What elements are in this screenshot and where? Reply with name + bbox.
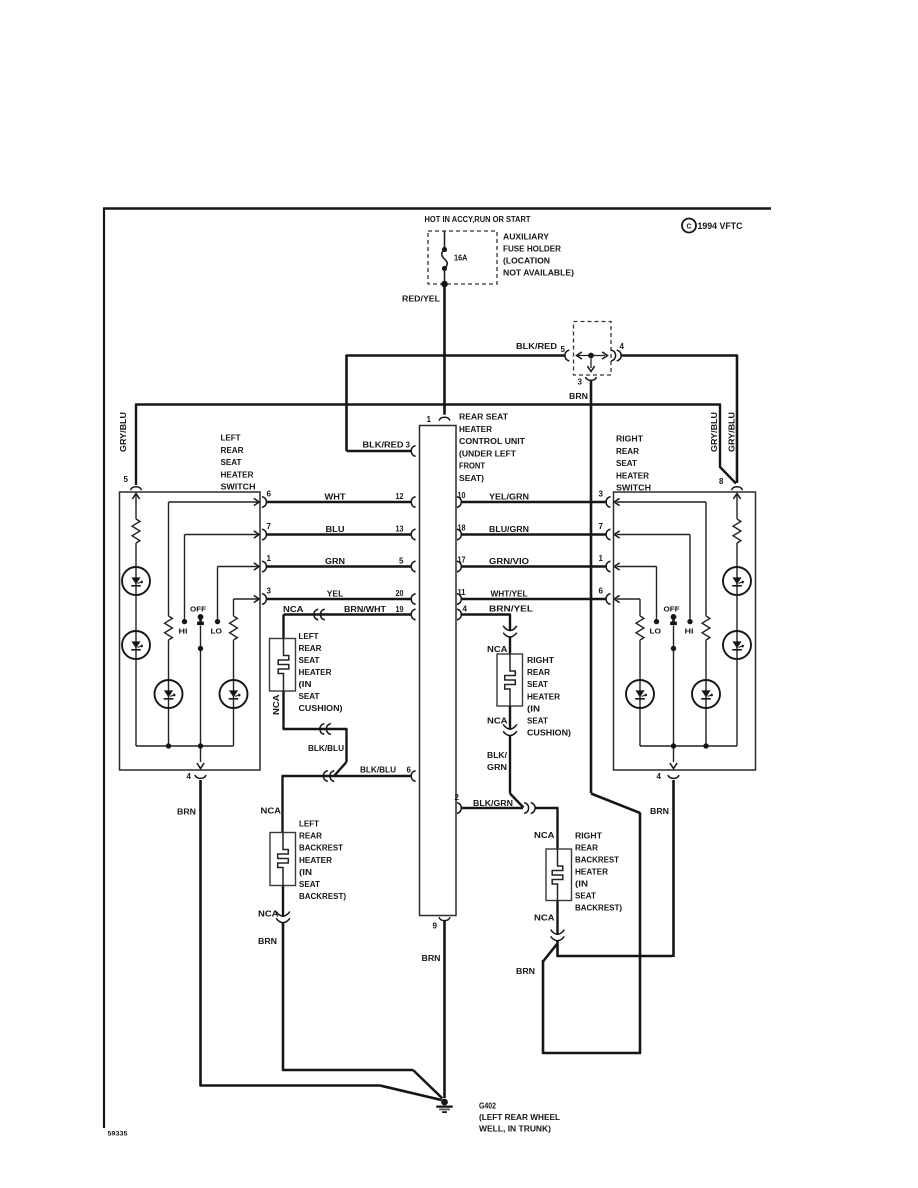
S2 OFF wiper contact <box>670 614 677 625</box>
S1 HI contact wire <box>184 535 186 619</box>
S1 pin 3 connector <box>262 594 266 605</box>
label LO (S2) <box>650 627 662 636</box>
svg-text:GRN: GRN <box>487 763 507 772</box>
sheet number 59335 <box>108 1131 128 1138</box>
svg-text:BRN/YEL: BRN/YEL <box>489 605 533 614</box>
wire GRN/VIO control unit pin 17 to S2 pin 1 <box>461 565 606 567</box>
svg-text:3: 3 <box>599 490 604 499</box>
LED indicator S1 upper <box>122 567 150 595</box>
LED indicator S2 LO <box>626 680 654 708</box>
svg-text:16A: 16A <box>454 254 468 263</box>
label BRN (left backrest) <box>258 937 277 946</box>
svg-text:BRN: BRN <box>177 808 196 817</box>
svg-text:(LEFT REAR WHEEL: (LEFT REAR WHEEL <box>479 1113 560 1122</box>
label RED/YEL <box>402 295 440 304</box>
svg-text:BACKREST: BACKREST <box>299 844 343 853</box>
label BLK/RED (pin3) <box>363 441 411 450</box>
control unit pin 5 label <box>399 557 404 566</box>
svg-text:NCA: NCA <box>534 831 555 840</box>
control unit pin 1 connector <box>439 417 450 420</box>
svg-text:REAR: REAR <box>575 844 598 853</box>
resistor S2 HI branch <box>702 616 710 640</box>
S2 HI contact wire <box>689 535 691 619</box>
svg-text:4: 4 <box>187 772 192 781</box>
S1 pin 6 internal arrow <box>254 498 259 505</box>
wire GRN S1 pin 1 to control unit pin 5 <box>267 565 411 567</box>
wire BRN left backrest heater to ground <box>283 923 443 1099</box>
label BRN (left switch pin 4) <box>177 808 196 817</box>
pin 4 label right switch <box>657 772 662 781</box>
svg-text:GRN/VIO: GRN/VIO <box>489 557 529 566</box>
label RIGHT REAR BACKREST HEATER (IN SEAT BACKREST) <box>575 832 622 913</box>
S1 pin 7 label <box>267 522 272 531</box>
label G402 (LEFT REAR WHEEL WELL, IN TRUNK) <box>479 1102 560 1134</box>
wire BLK/GRN junction to right backrest heater <box>535 808 558 849</box>
svg-text:4: 4 <box>463 605 468 614</box>
svg-text:SEAT: SEAT <box>299 692 320 701</box>
control unit pin 9 label <box>433 922 438 931</box>
svg-text:REAR: REAR <box>616 447 639 456</box>
label BRN (right switch pin 4) <box>650 807 669 816</box>
svg-text:WELL, IN TRUNK): WELL, IN TRUNK) <box>479 1125 551 1134</box>
svg-text:LEFT: LEFT <box>299 632 319 641</box>
label BRN (right lower) <box>516 967 535 976</box>
pin 4 connector right switch <box>668 775 679 778</box>
heating element left cushion <box>278 639 289 692</box>
svg-text:BRN/WHT: BRN/WHT <box>344 605 386 614</box>
node rail junction B <box>198 743 203 748</box>
wire BLK/RED control unit pin 3 up and right to connector pin 5 <box>347 356 565 452</box>
node S2 HI contact <box>687 619 692 624</box>
control unit pin 10 connector <box>457 497 461 508</box>
wire YEL/GRN control unit pin 10 to S2 pin 3 <box>461 501 606 503</box>
wire BRN right backrest junction to right switch pin 4 <box>558 941 673 956</box>
svg-text:BRN: BRN <box>258 937 277 946</box>
label RIGHT REAR SEAT HEATER SWITCH <box>616 435 651 493</box>
node S2 wiper junction <box>671 646 676 651</box>
svg-text:NCA: NCA <box>283 605 304 614</box>
svg-text:REAR: REAR <box>527 668 550 677</box>
fuse holder dashed box <box>428 231 497 284</box>
svg-text:NOT AVAILABLE): NOT AVAILABLE) <box>503 269 574 278</box>
fuse F 16A <box>442 231 448 283</box>
right rear seat heater (cushion) box <box>497 654 523 706</box>
node S2 rail junction A <box>671 743 676 748</box>
label YEL/GRN <box>489 493 529 502</box>
wire BLK/BLU left cushion heater to junction <box>284 691 347 776</box>
svg-text:BRN: BRN <box>516 967 535 976</box>
control unit pin 2 label <box>455 793 460 802</box>
svg-text:BLU/GRN: BLU/GRN <box>489 525 529 534</box>
wire BRN/WHT heater to control unit pin 19 <box>284 613 412 615</box>
svg-text:BLK/RED: BLK/RED <box>363 441 404 450</box>
svg-text:BRN: BRN <box>422 954 441 963</box>
svg-text:13: 13 <box>396 525 404 534</box>
LED indicator S2 upper <box>723 567 751 595</box>
label BRN (top) <box>569 392 588 401</box>
svg-text:NCA: NCA <box>487 645 508 654</box>
svg-text:1: 1 <box>599 554 604 563</box>
svg-text:BACKREST): BACKREST) <box>575 904 622 913</box>
S1 bottom rail <box>136 745 234 747</box>
label BRN (pin 9) <box>422 954 441 963</box>
control unit pin 10 label <box>458 491 466 500</box>
svg-text:5: 5 <box>399 557 404 566</box>
svg-text:WHT: WHT <box>325 493 346 502</box>
svg-text:8: 8 <box>719 477 724 486</box>
S1 pin 6 label <box>267 490 272 499</box>
S2 LO contact wire <box>656 567 658 619</box>
wire WHT S1 pin 6 to control unit pin 12 <box>267 501 411 503</box>
svg-text:BLK/BLU: BLK/BLU <box>360 766 396 775</box>
svg-text:OFF: OFF <box>664 605 680 614</box>
svg-text:NCA: NCA <box>258 910 279 919</box>
S1 pin 1 label <box>267 554 272 563</box>
svg-text:2: 2 <box>455 793 460 802</box>
wire BRN control unit pin 9 to ground <box>443 921 446 1098</box>
svg-text:3: 3 <box>406 441 411 450</box>
svg-text:YEL: YEL <box>327 590 344 599</box>
svg-text:FRONT: FRONT <box>459 462 485 471</box>
svg-text:4: 4 <box>657 772 662 781</box>
S1 pin 6 connector <box>262 497 266 508</box>
svg-text:12: 12 <box>396 492 404 501</box>
resistor S1 illumination <box>132 519 140 543</box>
label NCA (below left cushion heater, rotated) <box>272 694 281 715</box>
svg-text:19: 19 <box>396 605 404 614</box>
right rear backrest heater box <box>546 849 572 901</box>
LED indicator S2 lower <box>723 631 751 659</box>
node wiper junction <box>198 646 203 651</box>
wire left backrest heater to connector <box>282 886 284 917</box>
control unit pin 13 connector <box>411 529 415 540</box>
wire BLK/GRN right cushion heater down <box>509 706 511 729</box>
S1 pin 5 internal arrow <box>132 494 139 499</box>
svg-text:RIGHT: RIGHT <box>575 832 602 841</box>
svg-text:6: 6 <box>599 587 604 596</box>
in-line connector (left backrest BRN) <box>276 912 290 923</box>
control unit pin 6 label <box>407 766 412 775</box>
S2 pin 3 internal arrow <box>614 498 619 505</box>
label LEFT REAR BACKREST HEATER (IN SEAT BACKREST) <box>299 820 346 902</box>
S1 pin 7 internal arrow <box>254 531 259 538</box>
svg-text:1994 VFTC: 1994 VFTC <box>698 221 743 231</box>
rear seat heater control unit U1 box <box>420 426 457 916</box>
connector internal wire with arrows <box>577 352 608 359</box>
S2 pin 7 label <box>599 522 604 531</box>
svg-text:REAR SEAT: REAR SEAT <box>459 413 508 422</box>
svg-text:BLK/: BLK/ <box>487 751 508 760</box>
svg-text:OFF: OFF <box>190 605 206 614</box>
S2 pin 7 internal wire <box>617 534 691 536</box>
pin 5 connector <box>565 350 569 361</box>
label NCA (pin19 row) <box>283 605 304 614</box>
label NCA (below left backrest heater) <box>258 910 279 919</box>
in-line connector (right backrest BRN) <box>551 930 565 941</box>
pin 5 connector left switch <box>131 487 142 490</box>
S1 OFF wiper contact <box>197 614 204 625</box>
label HI <box>179 627 188 636</box>
label OFF <box>190 605 206 614</box>
svg-text:(UNDER LEFT: (UNDER LEFT <box>459 449 516 458</box>
S1 pin 6 internal wire <box>169 501 260 503</box>
label LEFT REAR SEAT HEATER (IN SEAT CUSHION) <box>299 632 343 713</box>
in-line connector (right cushion lower) <box>503 724 517 735</box>
svg-text:BLK/GRN: BLK/GRN <box>473 799 513 808</box>
svg-text:HEATER: HEATER <box>616 471 649 480</box>
wire right backrest heater to connector <box>556 901 558 935</box>
S2 bottom rail <box>640 745 737 747</box>
S2 pin 3 label <box>599 490 604 499</box>
svg-text:GRN: GRN <box>325 557 345 566</box>
S1 HI feed branch <box>168 502 170 746</box>
control unit pin 20 connector <box>411 594 415 605</box>
svg-text:CONTROL UNIT: CONTROL UNIT <box>459 437 525 446</box>
wire RED/YEL fuse to control unit pin 1 <box>443 284 446 415</box>
svg-text:HEATER: HEATER <box>299 856 332 865</box>
wire BLU S1 pin 7 to control unit pin 13 <box>267 533 411 535</box>
wire BLK/RED horizontal into pin 3 <box>347 450 412 453</box>
LED indicator S1 LO <box>220 680 248 708</box>
svg-text:BRN: BRN <box>569 392 588 401</box>
left rear seat heater (cushion) box <box>270 639 296 692</box>
control unit pin 12 label <box>396 492 404 501</box>
wire BRN right switch pin 4 down <box>672 780 675 957</box>
S1 pin 1 internal arrow <box>254 563 259 570</box>
svg-text:11: 11 <box>458 588 467 597</box>
svg-text:NCA: NCA <box>272 694 281 715</box>
svg-text:GRY/BLU: GRY/BLU <box>119 412 128 452</box>
left rear backrest heater box <box>270 833 296 886</box>
label BLU <box>326 525 345 534</box>
S1 pin 7 connector <box>262 529 266 540</box>
svg-text:BACKREST): BACKREST) <box>299 892 346 901</box>
S1 pin 3 label <box>267 587 272 596</box>
control unit pin 20 label <box>396 589 404 598</box>
S2 wiper common wire <box>673 626 675 763</box>
label NCA (below right backrest heater) <box>534 914 555 923</box>
connector dashed box (top right) <box>574 322 612 376</box>
frame top border <box>103 207 771 210</box>
label BLK/BLU (upper) <box>308 744 344 753</box>
svg-text:BACKREST: BACKREST <box>575 856 619 865</box>
S2 pin 1 internal arrow <box>614 563 619 570</box>
label WHT <box>325 493 346 502</box>
S2 pin 1 connector <box>606 561 610 572</box>
label GRY/BLU (left, rotated) <box>119 412 128 452</box>
in-line connector (BRN/YEL) <box>503 626 517 637</box>
control unit pin 18 label <box>458 524 466 533</box>
wire YEL S1 pin 3 to control unit pin 20 <box>267 598 411 600</box>
wire BRN right loop to top connector <box>543 794 640 1054</box>
in-line connector (BLK/GRN junction) <box>524 803 535 814</box>
wire BLK/RED connector pin 4 to right GRY/BLU drop <box>621 356 738 484</box>
label GRN/VIO <box>489 557 529 566</box>
svg-text:G402: G402 <box>479 1102 496 1111</box>
svg-text:7: 7 <box>599 522 604 531</box>
label YEL <box>327 590 344 599</box>
S2 pin 3 internal wire <box>617 501 707 503</box>
pin 4 connector left switch <box>195 775 206 778</box>
wire WHT/YEL control unit pin 11 to S2 pin 6 <box>461 598 606 600</box>
svg-text:LO: LO <box>211 627 223 636</box>
label HI (S2) <box>685 627 694 636</box>
pin 8 connector right switch <box>732 487 743 490</box>
svg-text:FUSE HOLDER: FUSE HOLDER <box>503 245 561 254</box>
wire BLK/GRN to junction <box>510 736 524 808</box>
S2 pin 4 internal arrow <box>670 763 677 768</box>
svg-text:REAR: REAR <box>299 832 322 841</box>
svg-text:SEAT: SEAT <box>299 880 320 889</box>
label RIGHT REAR SEAT HEATER (IN SEAT CUSHION) <box>527 656 571 738</box>
label HOT IN ACCY,RUN OR START <box>425 215 531 224</box>
S1 pin 3 internal wire <box>234 598 260 600</box>
svg-text:6: 6 <box>407 766 412 775</box>
S1 pin 1 connector <box>262 561 266 572</box>
S1 pin 1 internal wire <box>218 566 260 568</box>
wire BRN/YEL pin 4 to right cushion heater <box>461 615 510 631</box>
S2 pin 6 label <box>599 587 604 596</box>
svg-text:HEATER: HEATER <box>527 692 560 701</box>
svg-text:SWITCH: SWITCH <box>616 484 651 493</box>
control unit pin 3 connector <box>411 446 415 457</box>
svg-text:HEATER: HEATER <box>459 425 492 434</box>
control unit pin 12 connector <box>411 497 415 508</box>
pin 5 label <box>561 345 566 354</box>
label BRN/WHT <box>344 605 386 614</box>
control unit pin 4 connector <box>457 609 461 620</box>
in-line connector (BLK/BLU row) <box>323 771 334 782</box>
in-line connector (BLK/BLU upper) <box>320 724 331 735</box>
svg-text:(IN: (IN <box>299 868 312 877</box>
S1 LO resistor branch <box>233 599 235 746</box>
S2 pin 6 connector <box>606 594 610 605</box>
S1 pin 3 internal arrow <box>254 595 259 602</box>
label WHT/YEL <box>491 590 528 599</box>
wire BRN left switch pin 4 to ground <box>201 780 442 1100</box>
svg-text:HOT IN ACCY,RUN OR START: HOT IN ACCY,RUN OR START <box>425 215 531 224</box>
svg-text:SWITCH: SWITCH <box>221 483 256 492</box>
svg-text:LEFT: LEFT <box>299 820 319 829</box>
S2 pin 7 connector <box>606 529 610 540</box>
wire BLK/BLU row to control unit pin 6 <box>283 776 412 833</box>
svg-text:BRN: BRN <box>650 807 669 816</box>
label BLK/ GRN (two line) <box>487 751 508 772</box>
S2 pin 1 label <box>599 554 604 563</box>
svg-text:SEAT: SEAT <box>221 458 242 467</box>
svg-text:1: 1 <box>427 415 432 424</box>
svg-text:3: 3 <box>578 378 583 387</box>
resistor S1 LO branch <box>230 616 238 640</box>
control unit pin 2 connector <box>457 803 461 814</box>
svg-text:SEAT): SEAT) <box>459 474 484 483</box>
label OFF (S2) <box>664 605 680 614</box>
wire BLK/GRN control unit pin 2 <box>461 807 523 809</box>
control unit pin 18 connector <box>457 529 461 540</box>
svg-text:YEL/GRN: YEL/GRN <box>489 493 529 502</box>
S2 pin 8 internal arrow <box>733 494 740 499</box>
resistor S2 illumination <box>733 519 741 543</box>
svg-text:BLK/BLU: BLK/BLU <box>308 744 344 753</box>
svg-text:4: 4 <box>620 342 625 351</box>
label NCA (above right cushion heater) <box>487 645 508 654</box>
pin 3 label <box>578 378 583 387</box>
resistor S1 HI branch <box>165 616 173 640</box>
svg-text:9: 9 <box>433 922 438 931</box>
pin 4 label <box>620 342 625 351</box>
svg-text:LO: LO <box>650 627 662 636</box>
svg-text:GRY/BLU: GRY/BLU <box>710 412 719 452</box>
control unit pin 17 label <box>458 556 466 565</box>
label BLK/RED (top) <box>516 342 557 351</box>
node S2 LO contact <box>654 619 659 624</box>
frame left border <box>103 208 105 1128</box>
node HI contact <box>182 619 187 624</box>
pin 4 label left switch <box>187 772 192 781</box>
wire GRY/BLU left switch pin 5 to right switch pin 8 <box>136 405 736 486</box>
svg-text:RED/YEL: RED/YEL <box>402 295 440 304</box>
control unit pin 5 connector <box>411 561 415 572</box>
svg-text:18: 18 <box>458 524 466 533</box>
control unit pin 11 connector <box>457 594 461 605</box>
svg-text:59335: 59335 <box>108 1131 128 1138</box>
svg-text:5: 5 <box>124 475 129 484</box>
LED indicator S1 lower <box>122 631 150 659</box>
S2 pin 7 internal arrow <box>614 531 619 538</box>
node LO contact <box>215 619 220 624</box>
node rail junction A <box>166 743 171 748</box>
ground G402 <box>436 1099 452 1113</box>
svg-text:(IN: (IN <box>299 680 312 689</box>
svg-text:RIGHT: RIGHT <box>527 656 554 665</box>
label AUXILIARY FUSE HOLDER (LOCATION NOT AVAILABLE) <box>503 233 574 278</box>
label GRY/BLU (right outer, rotated) <box>728 412 737 452</box>
S2 pin 3 connector <box>606 497 610 508</box>
control unit pin 11 label <box>458 588 467 597</box>
svg-text:HI: HI <box>685 627 694 636</box>
pin 4 connector <box>611 350 621 361</box>
svg-text:(IN: (IN <box>527 704 540 713</box>
label GRN <box>325 557 345 566</box>
label NCA (above right backrest heater) <box>534 831 555 840</box>
label REAR SEAT HEATER CONTROL UNIT (UNDER LEFT FRONT SEAT) <box>459 413 525 484</box>
S1 illumination branch (GRY/BLU) <box>135 494 137 747</box>
S2 HI feed branch <box>705 502 707 746</box>
svg-text:CUSHION): CUSHION) <box>299 704 343 713</box>
svg-text:C: C <box>686 224 691 231</box>
svg-text:AUXILIARY: AUXILIARY <box>503 233 550 242</box>
control unit pin 6 connector <box>411 771 415 782</box>
label BRN/YEL <box>489 605 533 614</box>
svg-text:(LOCATION: (LOCATION <box>503 257 550 266</box>
svg-text:SEAT: SEAT <box>575 892 596 901</box>
S2 pin 6 internal wire <box>617 598 641 600</box>
svg-text:WHT/YEL: WHT/YEL <box>491 590 528 599</box>
label BLK/GRN (pin 2 row) <box>473 799 513 808</box>
svg-text:10: 10 <box>458 491 466 500</box>
control unit pin 19 label <box>396 605 404 614</box>
S2 illumination branch (GRY/BLU) <box>736 494 738 747</box>
node fuse output junction <box>441 281 448 288</box>
heating element right cushion <box>505 654 516 707</box>
copyright 1994 VFTC <box>682 219 743 233</box>
svg-text:20: 20 <box>396 589 404 598</box>
label NCA (above left backrest heater) <box>261 807 282 816</box>
S1 wiper common wire <box>200 626 202 763</box>
heating element left backrest <box>278 833 289 886</box>
wire BLU/GRN control unit pin 18 to S2 pin 7 <box>461 533 606 535</box>
heating element right backrest <box>552 849 563 902</box>
